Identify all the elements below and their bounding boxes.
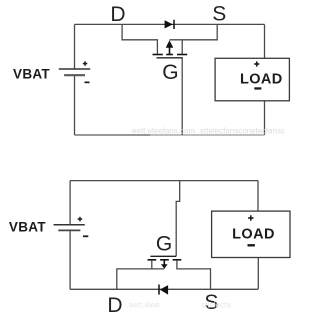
svg-text:D: D [110, 3, 125, 26]
svg-text:eett.elee: eett.elee [129, 301, 160, 310]
svg-text:LOAD: LOAD [240, 71, 283, 87]
svg-text:G: G [156, 233, 172, 256]
svg-text:sttelecfa: sttelecfa [201, 301, 231, 310]
svg-text:G: G [162, 61, 178, 84]
svg-text:LOAD: LOAD [232, 226, 275, 242]
svg-text:S: S [212, 3, 226, 26]
svg-text:VBAT: VBAT [13, 67, 50, 82]
svg-text:sttelecfansconelecfansc: sttelecfansconelecfansc [200, 127, 285, 136]
svg-text:VBAT: VBAT [9, 220, 46, 235]
svg-text:D: D [107, 294, 122, 317]
svg-text:eett.eleefans.com: eett.eleefans.com [132, 127, 195, 136]
